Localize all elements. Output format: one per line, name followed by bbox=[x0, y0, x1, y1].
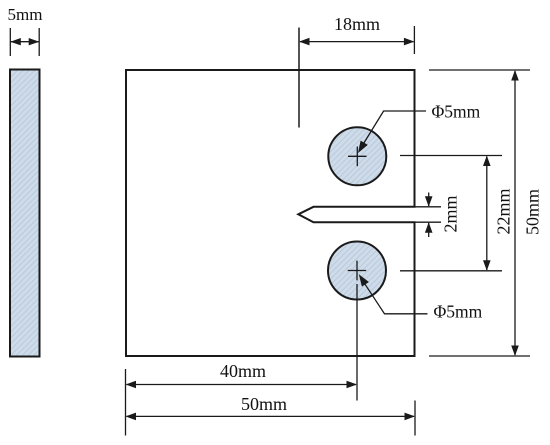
dimension 5mm arrow line bbox=[10, 38, 39, 45]
label 2mm (vertical) bbox=[441, 195, 461, 232]
svg-text:50mm: 50mm bbox=[241, 394, 287, 414]
label 5mm bbox=[8, 5, 43, 24]
label 40mm bbox=[220, 361, 266, 381]
svg-text:Φ5mm: Φ5mm bbox=[434, 302, 483, 322]
bottom hole center cross bbox=[348, 261, 367, 281]
side view plate (5mm thick section) bbox=[10, 70, 40, 357]
svg-text:5mm: 5mm bbox=[8, 5, 43, 24]
main plate outline with right-side notch bbox=[126, 70, 415, 356]
dimension 50mm bottom right extension line bbox=[414, 401, 416, 436]
label 50mm right (vertical) bbox=[523, 189, 543, 235]
dimension 5mm extension lines bbox=[10, 28, 39, 56]
dimension 2mm extension lines bbox=[415, 207, 441, 222]
top hole center cross bbox=[348, 147, 367, 167]
svg-text:40mm: 40mm bbox=[220, 361, 266, 381]
top hole (Φ5mm) bbox=[328, 127, 386, 185]
svg-text:Φ5mm: Φ5mm bbox=[432, 102, 481, 122]
dimension 22mm arrow line bbox=[483, 156, 491, 271]
bottom hole (Φ5mm) bbox=[328, 242, 386, 300]
dimension 50mm right extension lines bbox=[429, 70, 530, 356]
dimension 22mm extension lines bbox=[400, 156, 502, 271]
leader line bottom hole bbox=[359, 274, 428, 314]
label Φ5mm top bbox=[432, 102, 481, 122]
dimension 50mm bottom arrow line bbox=[126, 413, 416, 421]
label 22mm (vertical) bbox=[494, 188, 514, 234]
dimension 18mm extension lines bbox=[299, 26, 414, 128]
extension line from bottom hole center bbox=[356, 284, 358, 401]
dimension 18mm arrow line bbox=[299, 38, 414, 46]
dimension 40mm left extension line bbox=[125, 369, 127, 436]
leader line top hole bbox=[358, 111, 426, 153]
label Φ5mm bottom bbox=[434, 302, 483, 322]
svg-text:22mm: 22mm bbox=[494, 188, 514, 234]
dimension 40mm arrow line bbox=[126, 381, 358, 389]
svg-text:50mm: 50mm bbox=[523, 189, 543, 235]
label 18mm bbox=[334, 14, 380, 34]
label 50mm bottom bbox=[241, 394, 287, 414]
svg-text:2mm: 2mm bbox=[441, 195, 461, 232]
svg-text:18mm: 18mm bbox=[334, 14, 380, 34]
dimension 2mm arrows bbox=[425, 193, 433, 238]
dimension 50mm right arrow line bbox=[511, 70, 519, 356]
